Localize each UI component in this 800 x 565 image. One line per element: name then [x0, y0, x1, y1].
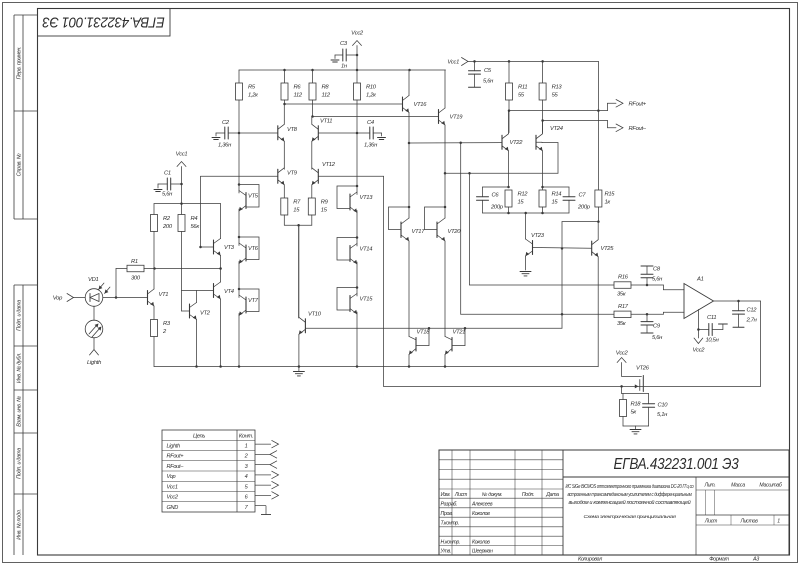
resistor R13 — [539, 83, 546, 100]
svg-text:RFout–: RFout– — [629, 126, 647, 132]
wire R8 down — [312, 100, 314, 117]
svg-text:RFout–: RFout– — [167, 464, 185, 470]
svg-text:Lighth: Lighth — [87, 360, 101, 366]
svg-text:Шеерман: Шеерман — [472, 549, 493, 555]
svg-text:5к: 5к — [631, 410, 637, 416]
wire VT3 base to VT9 base — [200, 177, 202, 248]
svg-text:RFout+: RFout+ — [629, 102, 647, 108]
svg-text:выходом и компенсацией постоян: выходом и компенсацией постоянной состав… — [569, 499, 692, 506]
svg-text:A1: A1 — [696, 277, 704, 283]
wire up to R1 — [115, 269, 117, 298]
wire R2 to node — [153, 232, 155, 269]
left supply bus — [239, 69, 446, 71]
svg-text:10,5н: 10,5н — [706, 338, 720, 344]
transistor VT7 (diode-connected) — [238, 288, 241, 291]
svg-text:C11: C11 — [707, 315, 716, 321]
terminal bar at C8 — [641, 265, 653, 267]
feedback wire VT12 base down — [383, 176, 385, 386]
wire VT12 base to feedback — [318, 175, 383, 177]
svg-text:C9: C9 — [653, 324, 661, 330]
svg-text:Лист: Лист — [704, 519, 718, 525]
transistor VT21 (diode-connected) — [445, 336, 452, 339]
wire VT23 emitter to ground — [525, 256, 527, 270]
svg-text:Пров.: Пров. — [441, 511, 453, 517]
svg-text:1,36н: 1,36н — [364, 143, 378, 149]
capacitor C12 — [738, 301, 740, 311]
wire up to VT24 base stub — [557, 143, 559, 174]
wire VT1 emitter to R3 — [153, 306, 155, 320]
svg-text:1к: 1к — [605, 200, 611, 206]
wire VT19 emitter down — [444, 125, 446, 173]
svg-text:VT26: VT26 — [636, 366, 650, 372]
ground at C4 — [378, 137, 386, 139]
top-left rotated designation stamp — [38, 9, 171, 37]
svg-text:R12: R12 — [518, 192, 529, 198]
connector pin 3 arrow — [255, 464, 270, 466]
wire R10 down — [356, 100, 358, 133]
svg-text:2,7н: 2,7н — [746, 318, 758, 324]
svg-text:Коколов: Коколов — [472, 539, 490, 545]
wire supply rail R2 R4 — [154, 203, 221, 205]
capacitor C4 — [369, 127, 371, 139]
ground at R18 C10 — [630, 429, 641, 431]
svg-text:VT19: VT19 — [450, 115, 464, 121]
svg-text:Vcc2: Vcc2 — [693, 348, 706, 354]
ground symbol on bus — [293, 371, 304, 373]
svg-text:Лит.: Лит. — [704, 483, 716, 489]
wire VT10 collector up — [298, 225, 300, 317]
wire VT2 emitter to bus — [196, 320, 198, 367]
capacitor C2 — [224, 127, 226, 139]
transistor VT20 (diode-connected) — [444, 206, 447, 209]
svg-text:R15: R15 — [605, 192, 616, 198]
svg-text:VT9: VT9 — [287, 171, 298, 177]
svg-text:VT13: VT13 — [360, 195, 374, 201]
wire R7 down — [283, 215, 285, 225]
wire VT3 collector to rail — [220, 204, 222, 239]
wire to R18 C10 box — [621, 386, 623, 393]
svg-text:C8: C8 — [653, 267, 661, 273]
svg-text:Коколов: Коколов — [472, 511, 490, 517]
wire VT23 collector up — [525, 213, 527, 239]
connector Lighth — [90, 350, 99, 356]
connector pin 6 arrow — [255, 494, 271, 496]
terminal bar at C9 — [641, 332, 653, 334]
wire to C5 — [474, 61, 476, 70]
svg-text:C5: C5 — [484, 68, 492, 74]
svg-text:А3: А3 — [752, 557, 759, 563]
wire R16 to op-amp — [631, 284, 663, 286]
svg-text:Цепь: Цепь — [193, 434, 205, 440]
svg-text:R11: R11 — [518, 85, 527, 91]
svg-text:Копировал: Копировал — [578, 557, 602, 563]
transistor VT16 — [402, 97, 404, 111]
svg-text:Vop: Vop — [53, 296, 63, 302]
capacitor C11 — [698, 329, 708, 331]
capacitor C5 — [469, 70, 481, 72]
svg-text:Справ. №: Справ. № — [17, 153, 23, 176]
svg-text:Перв. примен.: Перв. примен. — [17, 47, 23, 80]
wire op-amp output — [714, 300, 761, 302]
svg-text:Подп. и дата: Подп. и дата — [17, 300, 23, 331]
svg-text:R18: R18 — [631, 402, 642, 408]
wire VT16 emitter to VT17 — [408, 143, 410, 207]
wire output feedback down — [760, 301, 762, 386]
transistor VT2 — [189, 304, 191, 318]
connector pin 5 arrow — [255, 484, 271, 486]
svg-text:VT23: VT23 — [531, 233, 545, 239]
feedback wire to R16 — [469, 173, 471, 285]
wire VT20 emitter down to VT21 — [444, 241, 446, 336]
svg-text:VT10: VT10 — [308, 312, 322, 318]
output connector RFout+ — [616, 100, 623, 108]
svg-text:VT15: VT15 — [360, 297, 374, 303]
transistor VT23 — [532, 241, 534, 255]
wire jog to base rail — [562, 221, 598, 223]
terminal bar at C12 — [733, 326, 744, 328]
svg-text:Конт.: Конт. — [239, 434, 253, 440]
capacitor C10 — [648, 394, 650, 404]
svg-text:5,6н: 5,6н — [483, 79, 494, 85]
wire bus to R8 — [312, 70, 314, 83]
svg-text:R13: R13 — [552, 85, 563, 91]
resistor R15 — [595, 190, 602, 207]
svg-text:C2: C2 — [222, 120, 230, 126]
svg-text:1: 1 — [777, 519, 780, 525]
wire VT23 VT25 base rail — [533, 247, 592, 250]
capacitor C9 — [646, 314, 648, 321]
svg-text:Н.контр.: Н.контр. — [441, 539, 461, 545]
wire R8 node to VT19 base — [313, 116, 439, 118]
wire R3 to ground bus — [153, 337, 155, 367]
svg-text:VT21: VT21 — [453, 330, 466, 336]
svg-text:Т.контр.: Т.контр. — [441, 520, 460, 526]
svg-text:R6: R6 — [294, 85, 302, 91]
wire to R2 — [153, 204, 155, 215]
connector pin 1 arrow — [255, 443, 271, 445]
transistor VT15 (diode-connected) — [356, 286, 359, 289]
svg-text:200р: 200р — [577, 205, 591, 211]
svg-text:5,6н: 5,6н — [162, 192, 173, 198]
transistor VT10 — [304, 319, 306, 333]
svg-text:GND: GND — [167, 505, 179, 511]
svg-text:R7: R7 — [293, 200, 301, 206]
svg-text:C7: C7 — [579, 193, 587, 199]
wire Vcc2 to bus — [356, 46, 358, 71]
ground at VT23 — [520, 271, 531, 273]
svg-text:Vop: Vop — [167, 474, 176, 480]
photodiode VD1 — [85, 289, 103, 307]
wire VT17 emitter down to VT18 — [408, 241, 410, 336]
svg-text:C1: C1 — [164, 171, 171, 177]
wire VT12 emitter to R9 — [311, 185, 313, 198]
svg-text:Формат: Формат — [709, 557, 729, 563]
svg-text:Vcc2: Vcc2 — [167, 495, 179, 501]
op-amp A1 — [684, 284, 714, 319]
transistor VT6 (diode-connected) — [238, 236, 241, 239]
wire VT22 emitter to R12 — [508, 151, 510, 187]
ground bar at C5 — [469, 86, 481, 88]
resistor R4 — [178, 215, 185, 232]
svg-text:VT24: VT24 — [550, 126, 563, 132]
Vcc1 supply bus — [468, 60, 598, 62]
wire VT2 collector — [196, 291, 198, 303]
svg-text:Vcc1: Vcc1 — [447, 60, 459, 66]
svg-text:Изм.: Изм. — [441, 492, 451, 498]
capacitor C7 — [543, 186, 570, 188]
wire to R16 — [470, 284, 615, 286]
connector pin 4 arrow — [255, 474, 271, 476]
svg-text:200: 200 — [162, 224, 173, 230]
transistor VT9 — [277, 169, 279, 183]
wire to RFout- — [543, 120, 608, 122]
resistor R8 — [309, 83, 316, 100]
transistor VT5 (diode-connected) — [238, 183, 241, 186]
svg-text:R3: R3 — [163, 321, 171, 327]
wire VT8 collector — [283, 104, 285, 124]
wire R13 to VT24 — [542, 100, 544, 133]
transistor VT18 (diode-connected) — [409, 336, 416, 339]
svg-text:C4: C4 — [367, 120, 374, 126]
svg-text:Vcc2: Vcc2 — [616, 351, 629, 357]
svg-text:112: 112 — [322, 93, 331, 99]
svg-text:R16: R16 — [618, 275, 629, 281]
svg-text:VT2: VT2 — [200, 311, 211, 317]
power symbol Vcc2 at op-amp — [694, 338, 703, 344]
wire VT19 emitter to VT20 — [444, 173, 446, 207]
resistor R6 — [281, 83, 288, 100]
wire R5 column to VT5 chain — [238, 133, 240, 185]
svg-text:Подп. и дата: Подп. и дата — [17, 448, 23, 479]
transistor VT11 — [317, 126, 319, 140]
wire VT16 collector to bus — [408, 70, 410, 96]
svg-text:C3: C3 — [340, 41, 348, 47]
feedback wire bottom — [384, 385, 761, 387]
transistor VT17 (diode-connected) — [408, 206, 411, 209]
wire box bottom rail — [623, 425, 649, 427]
resistor R2 — [151, 215, 158, 232]
svg-text:VT20: VT20 — [448, 229, 462, 235]
svg-text:Инв. № подл.: Инв. № подл. — [17, 509, 23, 540]
wire R15 to VT25 collector — [597, 207, 599, 222]
svg-text:ЕГВА.432231.001 Э3: ЕГВА.432231.001 Э3 — [42, 13, 164, 29]
wire C4 to ground — [373, 132, 381, 134]
wire VD1 to photocell — [93, 306, 95, 320]
wire Vcc1 down — [181, 167, 183, 204]
feedback wire to R17 — [460, 143, 462, 314]
svg-text:R4: R4 — [191, 216, 198, 222]
connector pin 2 arrow — [255, 453, 270, 455]
wire R11 to VT22 — [508, 100, 510, 133]
transistor VT14 (diode-connected) — [356, 236, 359, 239]
svg-text:Подп.: Подп. — [522, 492, 534, 498]
wire down to rail — [561, 222, 563, 329]
wire VT1 collector up — [153, 269, 155, 290]
resistor R10 — [354, 83, 361, 100]
wire bus to R6 — [284, 70, 286, 83]
resistor R1 — [127, 265, 144, 272]
transistor VT4 — [213, 284, 215, 298]
wire Vcc1 to R15 — [597, 61, 599, 190]
svg-text:ЕГВА.432231.001 Э3: ЕГВА.432231.001 Э3 — [614, 456, 739, 473]
title block (osnovnaya nadpis) — [439, 450, 789, 555]
svg-text:VT1: VT1 — [159, 292, 169, 298]
wire VT9 base line — [201, 175, 278, 177]
svg-text:VT6: VT6 — [248, 246, 259, 252]
wire to RFout+ — [509, 110, 608, 112]
wire C1 to Vcc1 — [171, 183, 182, 185]
resistor R5 — [236, 83, 243, 100]
wire VT4 collector — [220, 269, 222, 283]
wire box bottom rail right — [526, 212, 569, 214]
svg-text:VT11: VT11 — [320, 119, 332, 125]
svg-text:Взам. инв. №: Взам. инв. № — [17, 396, 23, 427]
wire R9 down — [311, 215, 313, 225]
svg-text:35к: 35к — [617, 321, 626, 327]
svg-text:VT22: VT22 — [510, 140, 524, 146]
transistor VT24 — [535, 135, 537, 149]
wire VT24 emitter to R14 — [542, 151, 544, 187]
wire VT8 emitter to VT9 — [283, 141, 285, 169]
ground at C1 — [154, 189, 162, 191]
wire C1 to ground — [158, 183, 167, 185]
svg-text:C10: C10 — [658, 403, 669, 409]
resistor R11 — [506, 83, 513, 100]
transistor VT13 (diode-connected) — [356, 185, 359, 188]
svg-text:Разраб.: Разраб. — [441, 502, 458, 508]
svg-text:VT5: VT5 — [248, 194, 259, 200]
wire R4 down to VT2 base — [181, 232, 183, 312]
svg-text:200р: 200р — [490, 205, 504, 211]
wire base rail VT10-VT18-VT21 — [305, 327, 562, 329]
svg-text:C6: C6 — [492, 193, 500, 199]
svg-text:R14: R14 — [552, 192, 562, 198]
svg-text:VT4: VT4 — [224, 289, 234, 295]
svg-text:Алексеев: Алексеев — [471, 502, 493, 508]
wire R17 to op-amp — [631, 313, 663, 315]
svg-text:№ докум.: № докум. — [482, 492, 502, 498]
svg-text:R1: R1 — [131, 259, 138, 265]
transistor VT22 — [501, 135, 503, 149]
output connector RFout- — [616, 124, 623, 132]
resistor R7 — [281, 198, 288, 215]
wire to VT2 base — [182, 310, 190, 312]
ground at C2 — [212, 137, 220, 139]
resistor R14 — [542, 187, 544, 190]
ground at C3 — [331, 59, 339, 61]
svg-text:1,2к: 1,2к — [248, 93, 258, 99]
wire C3 to ground — [335, 54, 343, 56]
svg-text:35к: 35к — [617, 292, 626, 298]
wire down to VT10 — [298, 225, 300, 318]
svg-text:1,36н: 1,36н — [218, 143, 232, 149]
wire VT25 emitter to bus end — [597, 257, 599, 367]
svg-text:VT8: VT8 — [287, 127, 298, 133]
svg-text:1: 1 — [245, 443, 248, 449]
svg-text:Утв.: Утв. — [441, 549, 452, 555]
wire to VT4 base — [182, 290, 214, 292]
resistor R12 — [483, 186, 509, 188]
svg-text:Vcc1: Vcc1 — [176, 152, 188, 158]
wire box bottom rail — [483, 212, 526, 214]
wire bus to R10 — [356, 70, 358, 83]
wire to R13 — [542, 61, 544, 83]
wire box top rail — [622, 393, 649, 395]
svg-text:VT25: VT25 — [601, 246, 615, 252]
wire VT10 emitter to bus — [298, 334, 300, 366]
wire Vcc2 to VT26 — [621, 363, 623, 377]
svg-text:Vcc1: Vcc1 — [167, 484, 178, 490]
transistor VT1 — [147, 291, 149, 305]
svg-text:5,6н: 5,6н — [652, 277, 663, 283]
wire VT16 emitter down — [408, 113, 410, 144]
wire VT24 base line — [445, 172, 558, 174]
capacitor C8 — [646, 278, 648, 285]
wire VD1 to VT1 base — [103, 297, 148, 299]
svg-text:Масштаб: Масштаб — [759, 483, 783, 489]
svg-text:RFout+: RFout+ — [167, 454, 185, 460]
svg-text:Дата: Дата — [545, 492, 559, 498]
svg-text:Lighth: Lighth — [167, 443, 181, 449]
left margin column boxes — [13, 15, 15, 219]
wire to R11 — [508, 61, 510, 83]
svg-text:R8: R8 — [322, 85, 330, 91]
connector pin table — [162, 430, 255, 512]
capacitor C3 — [342, 49, 344, 61]
wire to Lighth pin — [93, 338, 95, 349]
wire VT4 emitter to bus — [220, 299, 222, 367]
capacitor C1 — [166, 178, 168, 190]
svg-text:VT3: VT3 — [224, 245, 235, 251]
wire R6 down — [284, 100, 286, 104]
svg-text:R10: R10 — [366, 85, 377, 91]
svg-text:VT17: VT17 — [412, 229, 426, 235]
wire C2 to ground — [216, 132, 225, 134]
svg-text:5,6н: 5,6н — [652, 335, 663, 341]
svg-text:R2: R2 — [163, 216, 171, 222]
svg-text:VT14: VT14 — [360, 247, 373, 253]
svg-text:Лист: Лист — [454, 492, 468, 498]
svg-text:VT12: VT12 — [322, 162, 336, 168]
wire to R17 — [461, 313, 614, 315]
wire VT11 emitter to VT12 — [311, 141, 313, 169]
svg-text:встроенным трансимпедансным ус: встроенным трансимпедансным усилителем с… — [568, 492, 692, 498]
wire VT22 base line — [409, 142, 502, 144]
svg-text:R5: R5 — [248, 85, 256, 91]
svg-text:C12: C12 — [747, 308, 758, 314]
transistor VT3 — [213, 240, 215, 254]
svg-text:Схема электрическая принципиал: Схема электрическая принципиальная — [584, 514, 677, 520]
transistor VT25 — [591, 241, 593, 255]
svg-text:56к: 56к — [191, 224, 200, 230]
wire R7 R9 junction — [284, 224, 312, 226]
svg-text:Листов: Листов — [739, 519, 758, 525]
svg-text:ИС SiGe BiCMOS оптоэлектронног: ИС SiGe BiCMOS оптоэлектронного приемник… — [566, 484, 694, 490]
svg-text:VT7: VT7 — [248, 298, 259, 304]
svg-text:Vcc2: Vcc2 — [351, 31, 364, 37]
resistor R18 — [620, 400, 627, 417]
wire C2 to VT8 base — [228, 132, 278, 134]
svg-text:5,1н: 5,1н — [657, 412, 668, 418]
wire node row — [155, 268, 221, 270]
wire VT19 collector to bus — [444, 70, 446, 108]
wire bus to R5 — [238, 70, 240, 83]
svg-text:R9: R9 — [321, 200, 329, 206]
svg-text:300: 300 — [131, 276, 141, 282]
transistor VT12 — [317, 169, 319, 183]
svg-text:VT16: VT16 — [414, 102, 428, 108]
photo element (light sensor) — [85, 320, 103, 338]
